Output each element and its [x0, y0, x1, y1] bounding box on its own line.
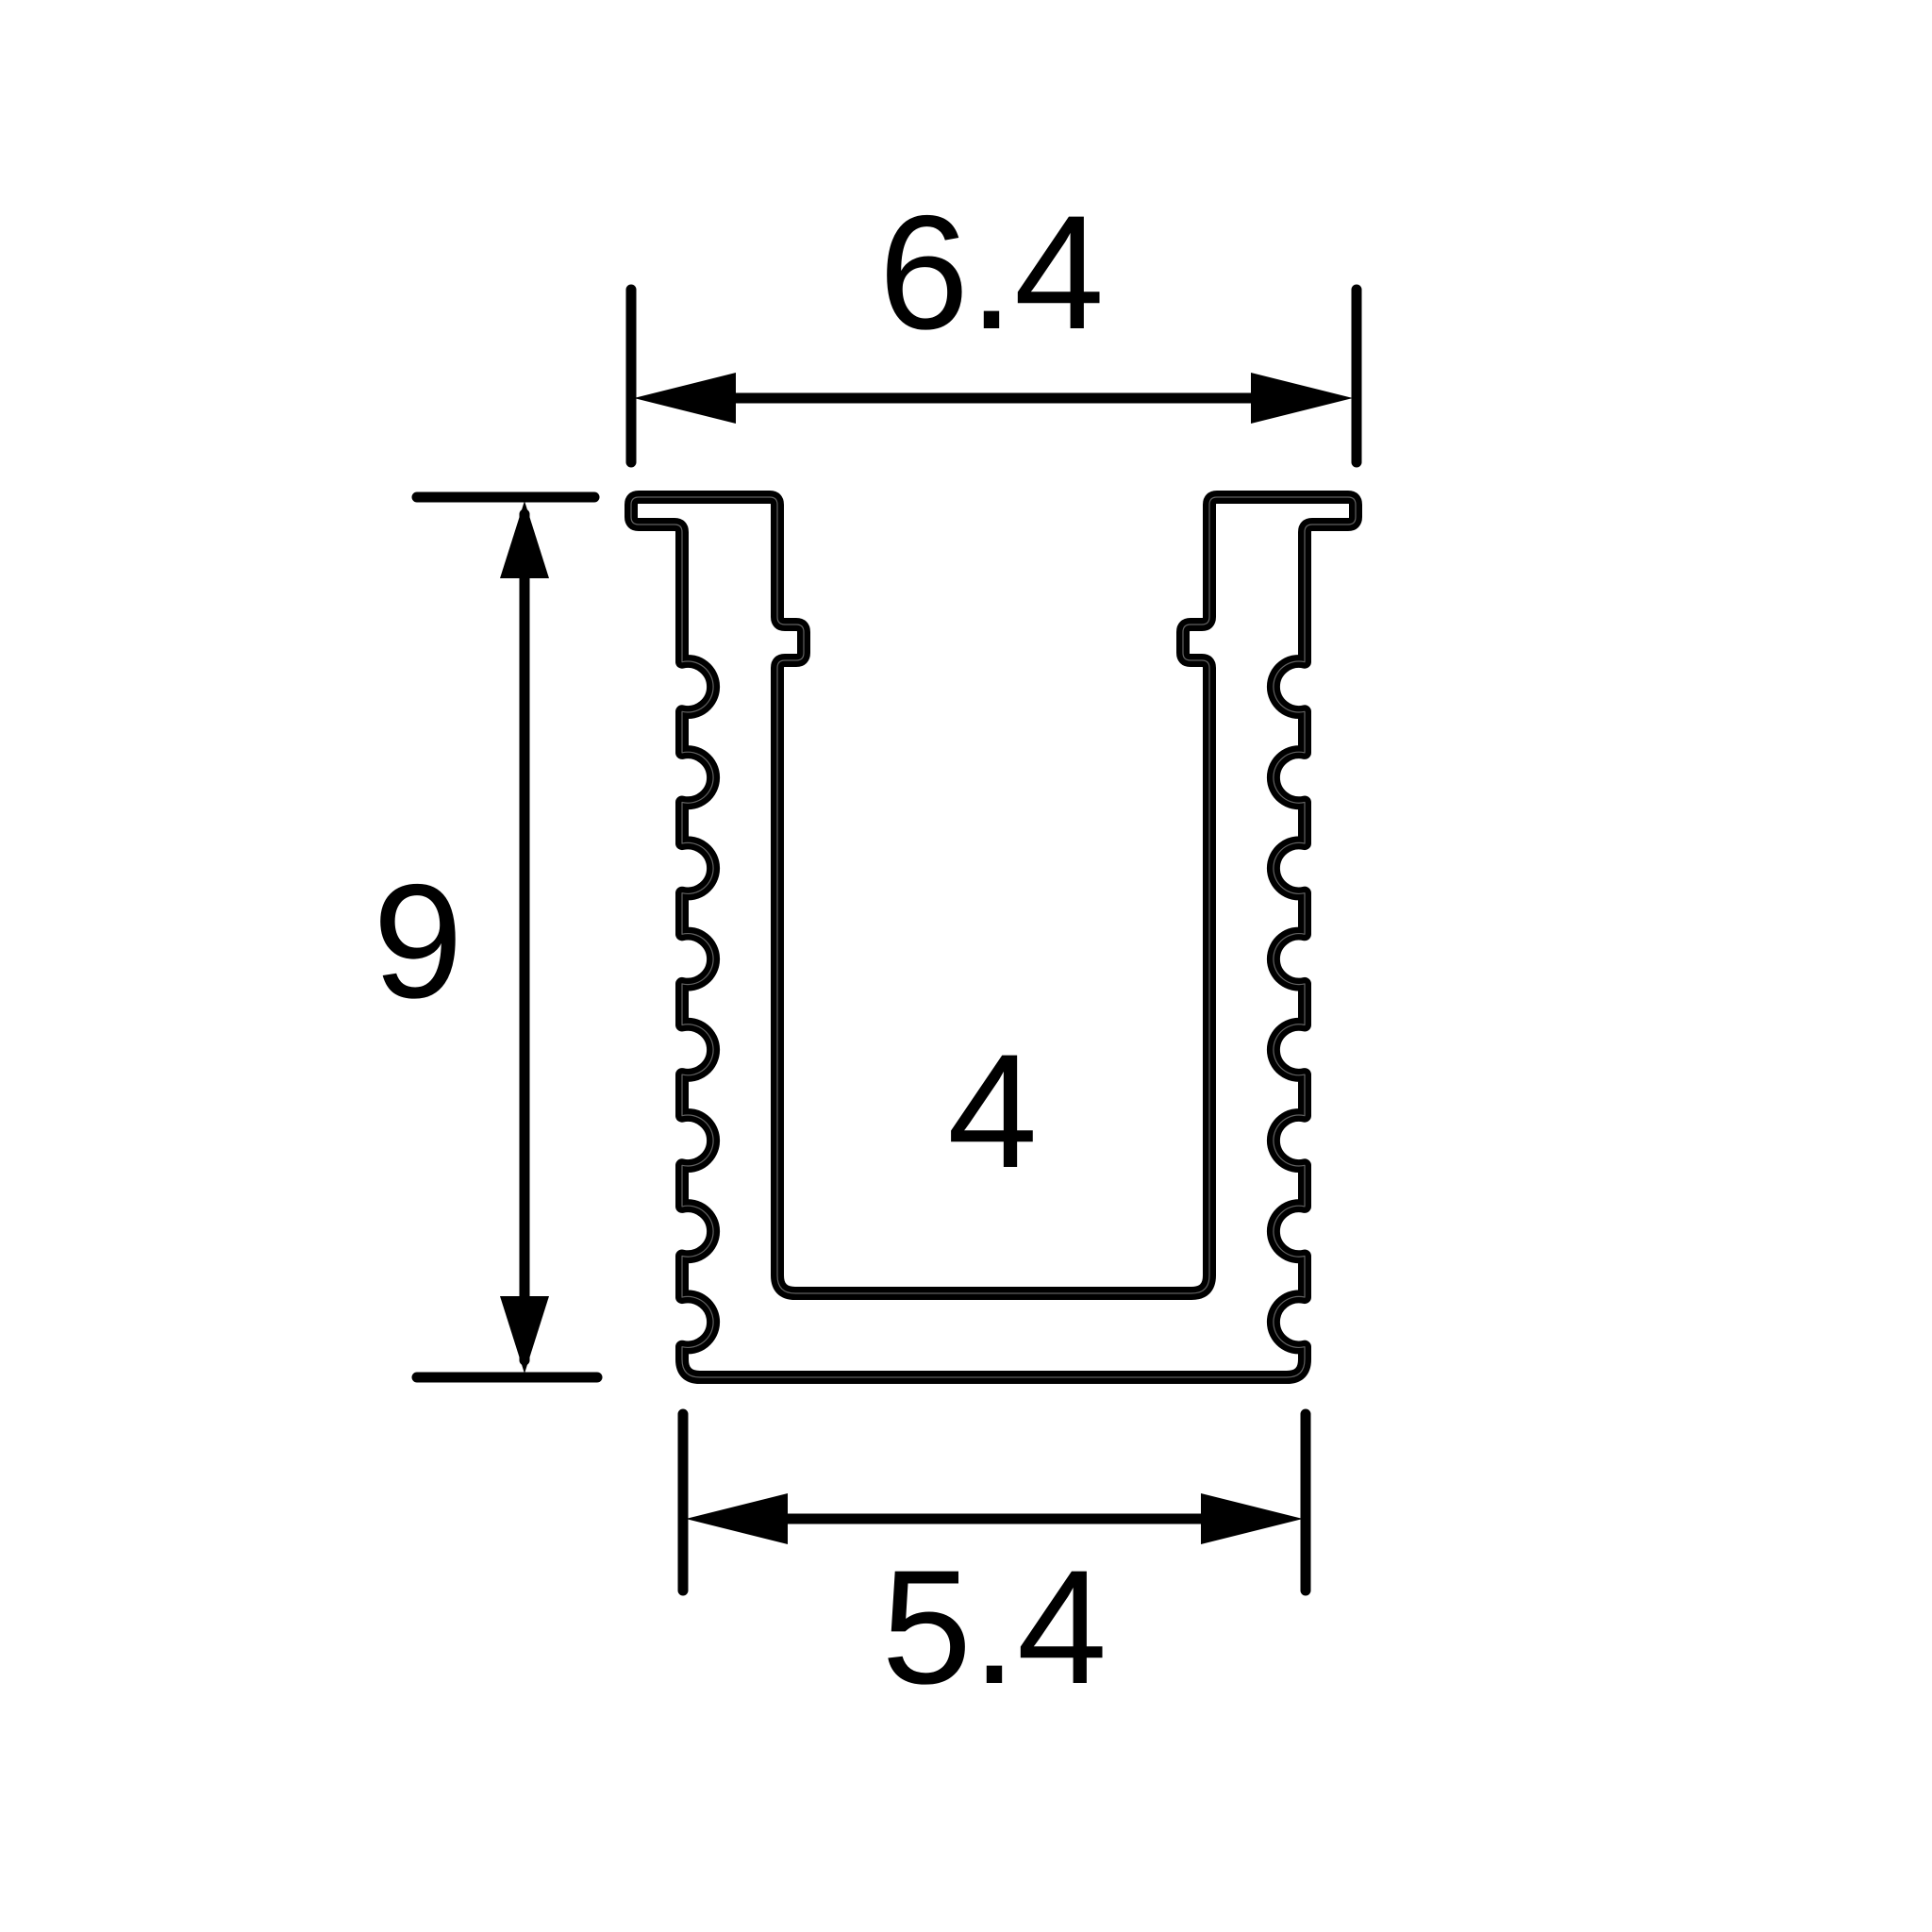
aluminum LED profile cross-section outline: [631, 497, 1356, 1377]
dimension: 9 height: [417, 497, 597, 1377]
arrowhead right (6.4): [1251, 373, 1353, 424]
dimension line: [709, 1514, 1279, 1524]
extension line right: [1301, 1414, 1311, 1591]
svg-text:6.4: 6.4: [878, 182, 1104, 363]
arrowhead left (6.4): [634, 373, 736, 424]
extension tick top: [417, 492, 594, 503]
svg-text:4: 4: [947, 1021, 1038, 1202]
dimension: 6.4 top width: [631, 290, 1357, 462]
svg-text:5.4: 5.4: [881, 1537, 1107, 1718]
inner gloss highlight of profile stroke: [631, 497, 1356, 1377]
dimension: 5.4 bottom width: [683, 1414, 1306, 1591]
dimension line: [660, 393, 1327, 404]
extension line left: [626, 290, 637, 462]
arrowhead up (9): [500, 501, 549, 578]
svg-text:9: 9: [373, 851, 463, 1032]
arrowhead left (5.4): [686, 1493, 788, 1544]
extension line right: [1352, 290, 1362, 462]
dimension line: [520, 514, 530, 1360]
arrowhead down (9): [500, 1296, 549, 1374]
extension tick bottom: [417, 1373, 597, 1383]
extension line left: [678, 1414, 689, 1591]
arrowhead right (5.4): [1201, 1493, 1303, 1544]
